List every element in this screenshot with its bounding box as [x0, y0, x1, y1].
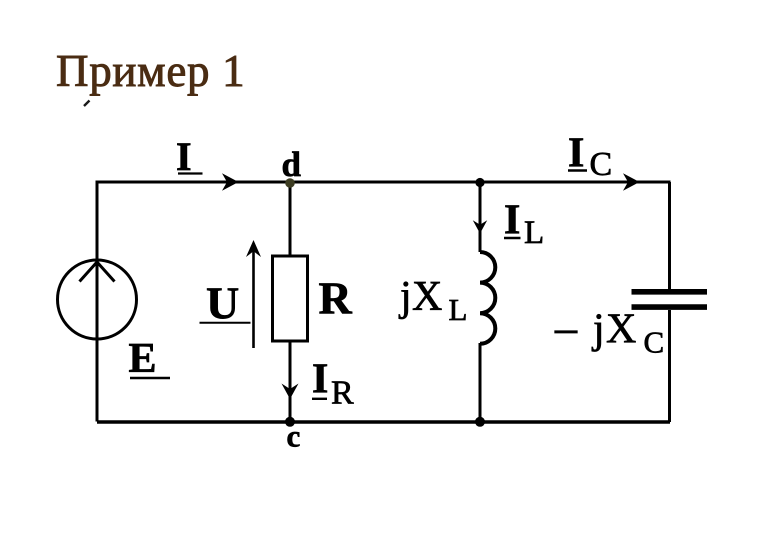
svg-text:X: X: [606, 307, 636, 353]
svg-text:R: R: [319, 273, 353, 324]
svg-text:d: d: [282, 145, 302, 184]
svg-text:U: U: [206, 278, 239, 329]
svg-text:j: j: [591, 307, 605, 353]
svg-text:j: j: [398, 274, 412, 320]
svg-text:–: –: [554, 304, 578, 353]
svg-text:C: C: [590, 146, 613, 183]
svg-text:L: L: [449, 292, 468, 327]
svg-text:X: X: [412, 274, 442, 320]
svg-text:I: I: [312, 357, 328, 403]
svg-text:I: I: [504, 197, 520, 243]
svg-text:I: I: [176, 134, 192, 179]
svg-text:C: C: [644, 325, 665, 360]
svg-text:L: L: [524, 215, 544, 251]
svg-text:c: c: [287, 419, 301, 454]
svg-text:R: R: [331, 375, 354, 412]
svg-text:E: E: [129, 336, 157, 382]
